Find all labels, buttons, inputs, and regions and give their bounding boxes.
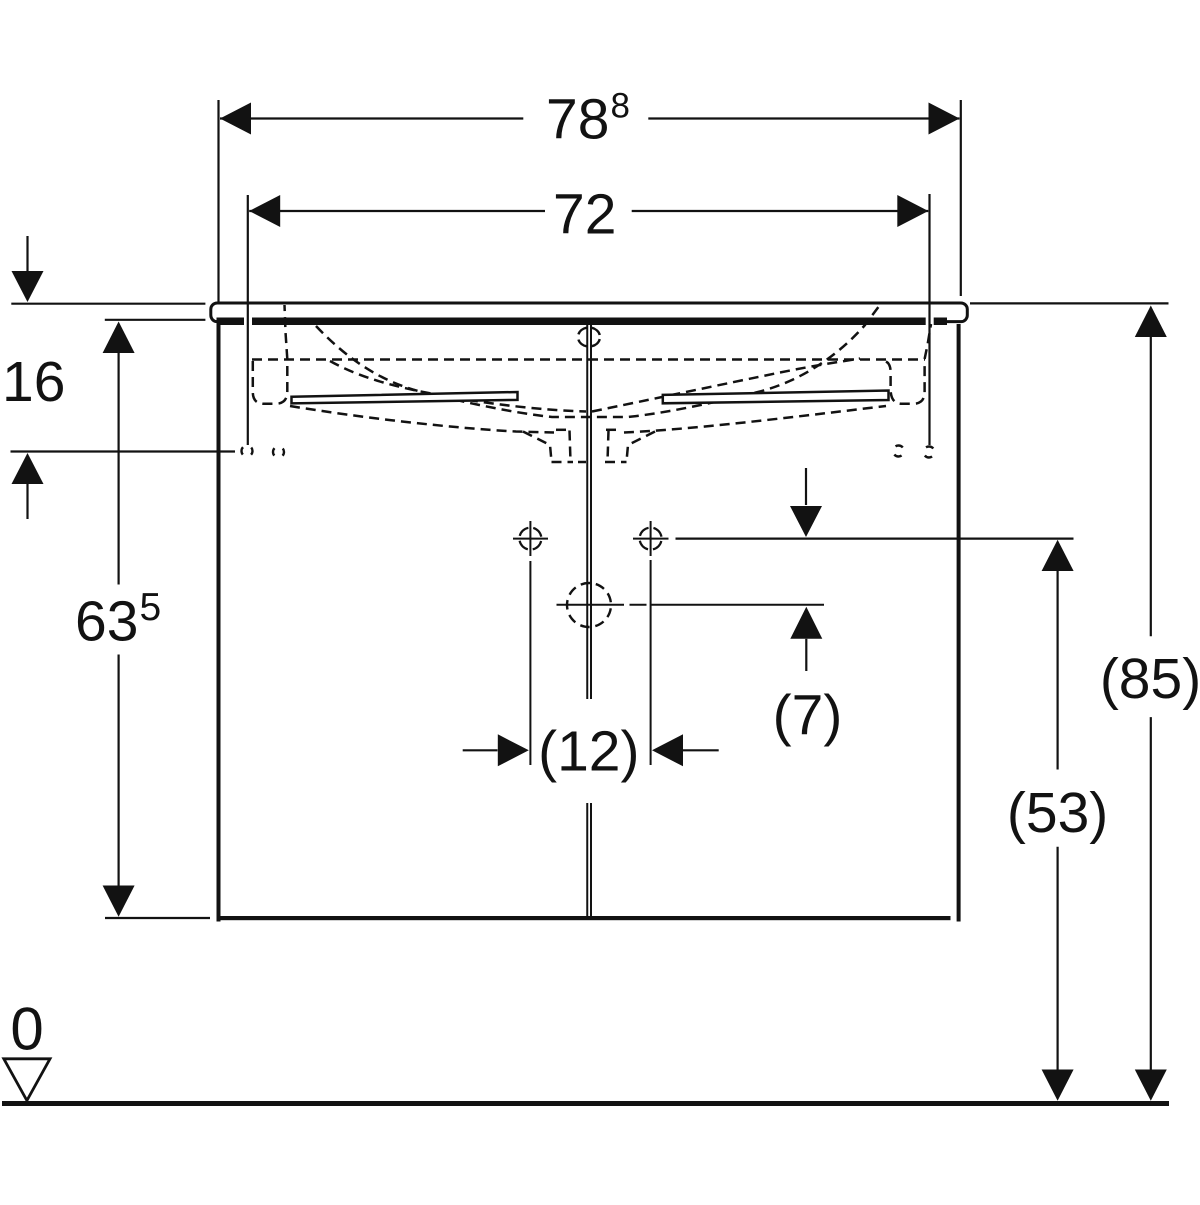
63.5 upper tick line <box>105 319 206 321</box>
dashed left pocket rising edge <box>285 305 288 359</box>
svg-text:(12): (12) <box>538 719 639 783</box>
washbasin slab <box>211 303 968 322</box>
dashed basin rim line <box>252 358 925 361</box>
extension line left of dimension 72 <box>247 195 249 445</box>
dashed fixing hole arc outer left <box>242 446 253 457</box>
svg-text:(7): (7) <box>773 684 843 748</box>
dashed fixing hole arc outer right <box>924 447 935 458</box>
dashed bowl outline curve <box>316 304 881 418</box>
dashed inner bowl diagonal right <box>592 359 860 412</box>
datum triangle <box>4 1059 50 1101</box>
door gap right line lower segment <box>590 803 592 916</box>
arrowhead 78.8 left <box>220 103 251 135</box>
(85) top arrowhead pointing up <box>1135 306 1167 338</box>
(12) left arrow shaft <box>463 749 498 751</box>
dimension line 78.8 left segment <box>220 117 523 119</box>
dashed inner bowl diagonal left <box>330 361 586 412</box>
dimension line 72 right segment <box>632 210 929 212</box>
63.5 dimension line lower segment <box>117 655 119 886</box>
(7) arrow shaft <box>805 639 807 671</box>
dashed trap centre dash <box>578 461 586 464</box>
svg-text:(85): (85) <box>1100 647 1200 711</box>
right door handle <box>663 391 889 404</box>
svg-text:16: 16 <box>2 350 65 414</box>
(12) right arrow shaft <box>683 749 719 751</box>
ground line <box>2 1101 1169 1106</box>
63.5 top arrowhead pointing up <box>103 322 135 354</box>
arrowhead pointing down to (53) reference line <box>790 506 822 537</box>
dashed trap bottom left <box>552 461 574 464</box>
(7) up arrowhead <box>790 607 822 639</box>
right tap hole cross vertical <box>650 521 652 556</box>
left tap hole cross vertical <box>529 521 531 556</box>
right tap hole cross horizontal <box>633 538 669 540</box>
16 bottom arrowhead pointing up <box>12 453 44 484</box>
svg-text:0: 0 <box>10 996 43 1063</box>
dashed lower bowl edge left <box>290 406 554 433</box>
dashed fixing hole arc inner left <box>273 447 284 458</box>
svg-text:(53): (53) <box>1007 781 1108 845</box>
dashed drain hole ellipse at centre <box>578 328 600 347</box>
63.5 bottom arrowhead pointing down <box>103 886 135 917</box>
left tap hole dashed circle <box>519 528 541 550</box>
dashed fixing hole arc inner right <box>893 446 904 457</box>
arrowhead 72 right <box>897 195 928 227</box>
siphon centreline segment 2 <box>630 604 647 606</box>
left tap hole cross horizontal <box>513 538 548 540</box>
arrowhead 72 left <box>249 195 280 227</box>
(85) dimension line upper segment <box>1150 337 1152 636</box>
dashed trap outer left leg <box>523 432 552 462</box>
(53) bottom arrowhead pointing down <box>1042 1070 1074 1101</box>
dashed right overflow pocket <box>886 361 925 404</box>
door gap right line upper segment <box>590 324 592 699</box>
(85) dimension line lower segment <box>1150 717 1152 1069</box>
thick joint band under washbasin <box>217 318 948 326</box>
(53) reference line <box>676 537 1074 539</box>
cabinet bottom panel <box>219 916 951 920</box>
63.5 lower tick line <box>105 917 210 919</box>
dashed left overflow pocket <box>253 361 287 404</box>
dashed siphon circle <box>567 583 611 627</box>
(85) bottom arrowhead pointing down <box>1135 1070 1167 1101</box>
16 top arrowhead pointing down <box>12 271 44 302</box>
(53) top arrowhead pointing up <box>1042 540 1074 571</box>
door gap left line lower segment <box>586 803 588 916</box>
(12) left arrowhead <box>498 734 529 766</box>
svg-text:63: 63 <box>75 590 138 654</box>
63.5 dimension line upper segment <box>117 353 119 585</box>
16 upper reference line <box>11 303 205 305</box>
siphon centreline segment 1 <box>557 604 625 606</box>
dashed lower bowl edge right <box>624 406 886 433</box>
extension line left of dimension 78.8 <box>217 100 219 302</box>
extension line right of dimension 78.8 <box>960 100 962 296</box>
right tap hole dashed circle <box>640 528 662 550</box>
svg-text:8: 8 <box>611 87 630 126</box>
dimension line 72 left segment <box>249 210 545 212</box>
dashed trap bottom right <box>605 461 627 464</box>
dashed trap inner left leg <box>570 431 571 462</box>
cabinet right side panel <box>957 324 961 922</box>
extension line right of dimension 72 <box>928 194 930 445</box>
(53) dimension line lower segment <box>1056 847 1058 1070</box>
white halo for left 72 extension line crossing band <box>244 316 252 327</box>
arrow shaft pointing down to (53) reference line <box>805 468 807 505</box>
left door handle <box>292 392 518 403</box>
cabinet left side panel <box>217 321 221 922</box>
door gap left line upper segment <box>586 324 588 699</box>
arrowhead 78.8 right <box>929 103 960 135</box>
dashed right pocket rising edge <box>925 324 931 359</box>
white halo for right 72 extension line crossing band <box>926 316 934 327</box>
16 lower reference line <box>11 450 236 452</box>
dashed trap inner right leg <box>608 431 609 462</box>
(53) dimension line upper segment <box>1056 571 1058 770</box>
right tap hole centreline <box>650 560 652 765</box>
16 bottom arrow shaft <box>26 484 28 519</box>
16 top arrow shaft <box>26 236 28 271</box>
dashed trap top connector right <box>606 429 622 432</box>
(12) right arrowhead <box>652 734 683 766</box>
dimension line 78.8 right segment <box>648 117 959 119</box>
siphon centreline segment 3 / (7) reference line <box>650 604 824 606</box>
svg-text:5: 5 <box>140 586 162 629</box>
dashed trap outer right leg <box>627 432 656 462</box>
dashed trap top connector left <box>556 429 572 432</box>
left tap hole centreline <box>529 561 531 765</box>
(85) reference line at washbasin top <box>970 302 1169 304</box>
svg-text:78: 78 <box>546 87 609 151</box>
svg-text:72: 72 <box>553 182 616 246</box>
